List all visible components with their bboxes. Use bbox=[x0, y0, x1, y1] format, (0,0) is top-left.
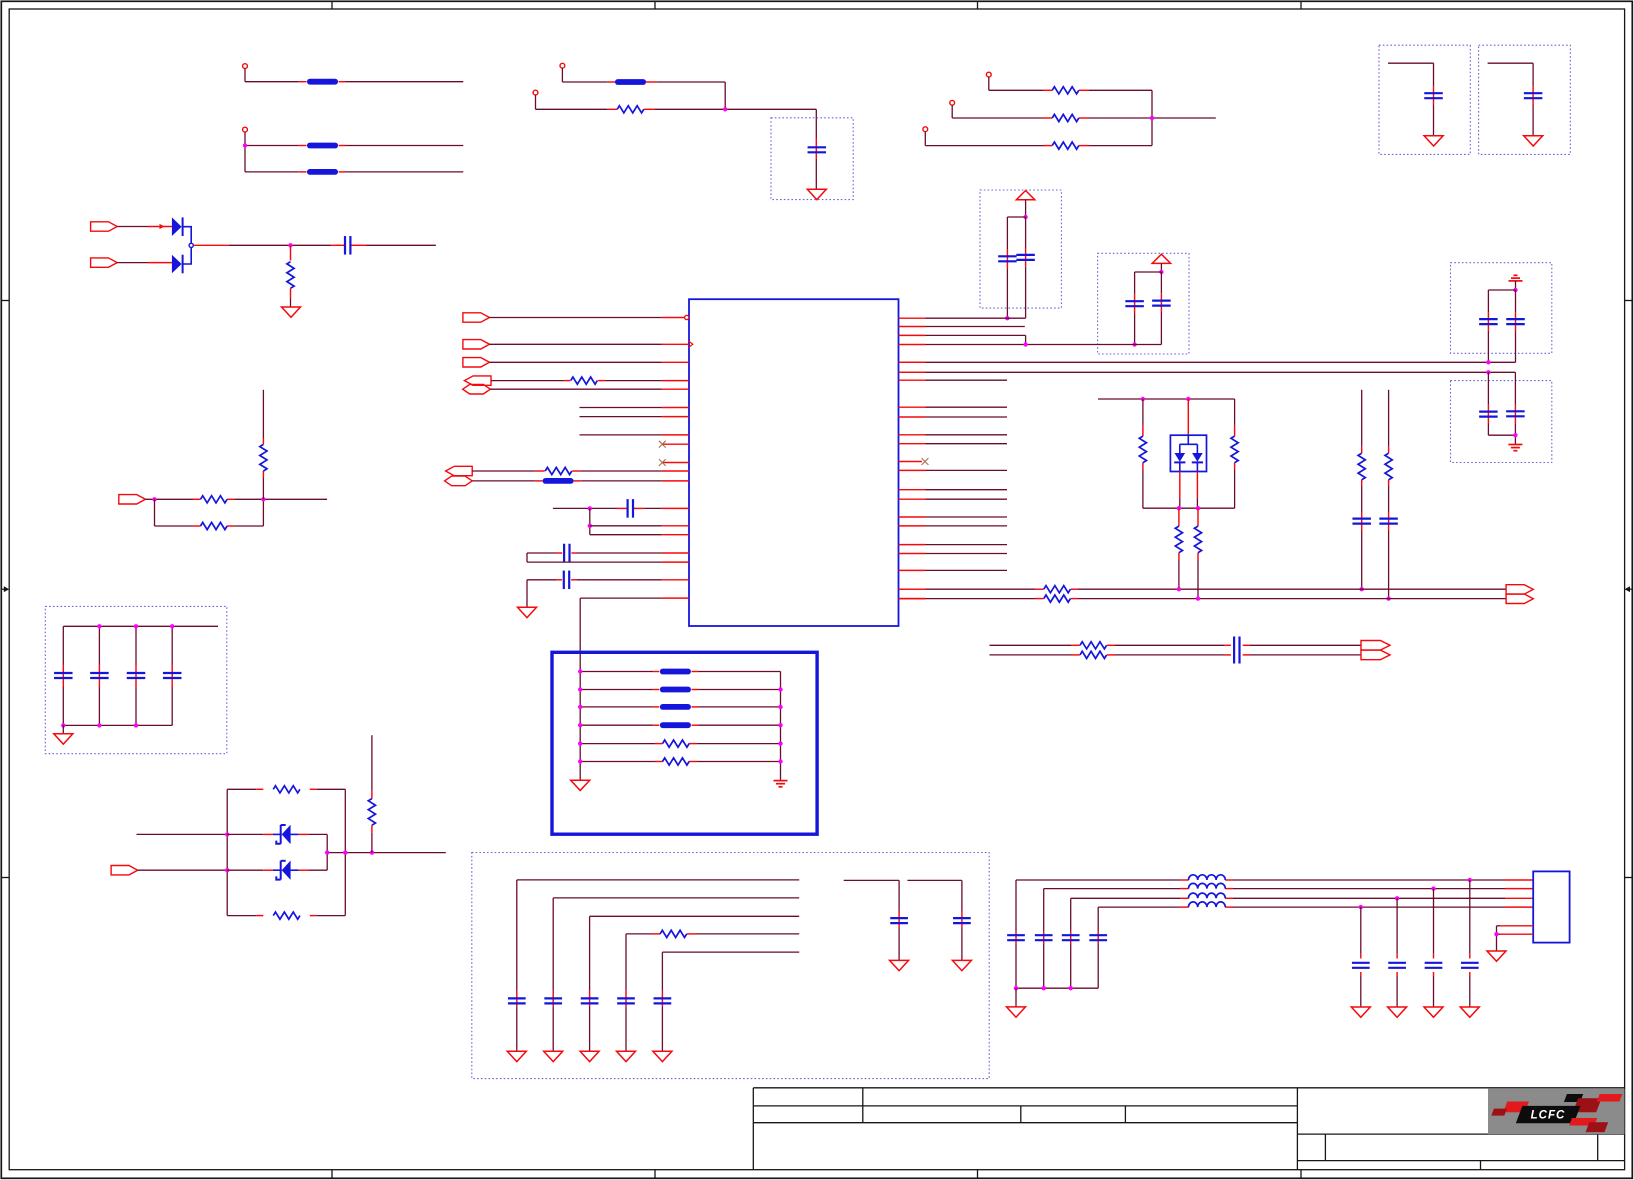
wire bbox=[926, 443, 1008, 445]
wire bbox=[517, 879, 799, 881]
wire bbox=[844, 879, 899, 881]
wire bbox=[245, 81, 299, 83]
wire bbox=[1098, 398, 1235, 400]
wire bbox=[1488, 289, 1515, 291]
wire bbox=[472, 470, 535, 472]
wire bbox=[926, 334, 1026, 336]
wire bbox=[1025, 200, 1027, 217]
zone tick left bbox=[1, 300, 9, 302]
port P2 bbox=[91, 258, 118, 267]
pin bbox=[662, 380, 689, 382]
ferrite bead FB8 bbox=[660, 704, 691, 710]
decoupling group box bbox=[771, 118, 853, 200]
zone tick left bbox=[1, 877, 9, 879]
ground earth bbox=[1508, 444, 1522, 446]
power symbol VCC bbox=[1016, 191, 1034, 200]
wire bbox=[527, 561, 662, 563]
test point TP4 bbox=[533, 90, 538, 95]
junction bbox=[778, 741, 782, 745]
wire bbox=[290, 245, 292, 260]
wire bbox=[262, 390, 264, 438]
port P13 bbox=[445, 476, 473, 486]
inverted pin bubble bbox=[685, 315, 689, 319]
pin bbox=[662, 388, 689, 390]
test point TP7 bbox=[923, 127, 928, 132]
resistor R14 bbox=[1080, 642, 1107, 649]
resistor R19 bbox=[663, 758, 690, 765]
capacitor C35 bbox=[90, 672, 109, 674]
junction bbox=[578, 687, 582, 691]
pin bbox=[662, 579, 689, 581]
junction bbox=[1359, 905, 1363, 909]
wire bbox=[926, 379, 1008, 381]
wire bbox=[926, 434, 1008, 436]
junction bbox=[578, 741, 582, 745]
wire bbox=[1097, 907, 1099, 932]
wire bbox=[1515, 290, 1517, 312]
wire bbox=[899, 371, 926, 373]
pin bbox=[899, 489, 926, 491]
zone tick top bbox=[977, 1, 979, 9]
decoupling group box bbox=[980, 190, 1061, 308]
wire bbox=[580, 706, 653, 708]
test point TP2 bbox=[243, 127, 248, 132]
pin bbox=[1500, 933, 1533, 935]
resistor R3 bbox=[1052, 87, 1079, 94]
wire bbox=[1361, 390, 1363, 447]
diode D2 bbox=[172, 255, 182, 274]
wire bbox=[989, 89, 1043, 91]
junction bbox=[723, 107, 727, 111]
capacitor C8 bbox=[1524, 92, 1543, 94]
wire bbox=[227, 869, 263, 871]
wire bbox=[926, 416, 1008, 418]
capacitor C18 bbox=[563, 571, 565, 590]
pin bbox=[899, 498, 926, 500]
capacitor C10 bbox=[1506, 318, 1525, 320]
wire bbox=[1135, 271, 1162, 273]
ground bbox=[1487, 951, 1506, 961]
resistor R4 bbox=[1052, 114, 1079, 121]
wire bbox=[299, 833, 309, 835]
wire bbox=[1196, 472, 1198, 499]
wire bbox=[579, 672, 581, 781]
wire bbox=[1044, 888, 1180, 890]
wire bbox=[1025, 217, 1027, 248]
port P8 bbox=[463, 340, 490, 349]
capacitor C6 bbox=[1152, 300, 1171, 302]
ground bbox=[282, 307, 301, 317]
wire bbox=[625, 934, 627, 991]
wire bbox=[490, 361, 662, 363]
pin bbox=[662, 434, 689, 436]
test point TP5 bbox=[986, 72, 991, 77]
capacitor C22 bbox=[617, 997, 635, 999]
wire bbox=[1160, 263, 1162, 272]
wire bbox=[1234, 399, 1236, 426]
port P12 bbox=[446, 466, 473, 475]
wire bbox=[1497, 925, 1501, 927]
port P7 bbox=[463, 313, 490, 322]
zone tick bottom bbox=[331, 1170, 333, 1179]
wire bbox=[273, 869, 282, 871]
wire bbox=[899, 361, 926, 363]
wire bbox=[227, 833, 263, 835]
wire bbox=[194, 244, 229, 246]
resistor R23 bbox=[260, 444, 267, 471]
port P6 bbox=[1361, 650, 1390, 660]
junction bbox=[1023, 215, 1027, 219]
wire bbox=[1043, 889, 1045, 932]
diode D1 bbox=[172, 217, 182, 236]
ground bbox=[1424, 136, 1443, 146]
junction bbox=[134, 624, 138, 628]
wire bbox=[1488, 62, 1534, 64]
resistor R5 bbox=[1052, 142, 1079, 149]
port P9 bbox=[463, 358, 490, 367]
wire bbox=[580, 407, 662, 409]
junction bbox=[1042, 986, 1046, 990]
wire bbox=[1469, 880, 1471, 954]
wire bbox=[226, 789, 228, 915]
junction bbox=[1386, 596, 1390, 600]
zone tick right bbox=[1625, 300, 1633, 302]
pin bbox=[662, 343, 689, 345]
pin bbox=[662, 561, 689, 563]
ferrite bead FB5 bbox=[543, 478, 574, 484]
node bubble bbox=[189, 243, 193, 247]
junction bbox=[588, 524, 592, 528]
resistor R15 bbox=[1080, 651, 1107, 658]
title block left table bbox=[753, 1088, 1297, 1170]
wire bbox=[926, 553, 1008, 555]
wire bbox=[1388, 62, 1434, 64]
wire bbox=[926, 544, 1008, 546]
ground bbox=[1388, 1007, 1407, 1017]
wire bbox=[580, 724, 653, 726]
pin (NC) bbox=[662, 462, 689, 464]
wire bbox=[183, 227, 192, 243]
ground bbox=[1351, 1007, 1370, 1017]
capacitor C31 bbox=[1425, 962, 1443, 964]
junction bbox=[152, 497, 156, 501]
port P3 bbox=[1506, 585, 1533, 594]
ground bbox=[653, 1051, 672, 1061]
junction bbox=[1177, 587, 1181, 591]
capacitor C32 bbox=[1388, 962, 1406, 964]
wire bbox=[290, 288, 292, 297]
clock pin mark bbox=[688, 341, 693, 348]
wire bbox=[63, 724, 172, 726]
port P11 bbox=[463, 384, 491, 394]
pin bbox=[899, 334, 926, 336]
wire bbox=[580, 761, 655, 763]
zone tick right bbox=[1625, 877, 1633, 879]
pin bbox=[662, 407, 689, 409]
wire bbox=[926, 525, 1008, 527]
capacitor C2 bbox=[808, 146, 827, 148]
wire bbox=[561, 68, 563, 82]
ground bbox=[507, 1051, 526, 1061]
pin (NC) bbox=[662, 443, 689, 445]
wire bbox=[926, 516, 1008, 518]
wire bbox=[580, 671, 653, 673]
port P10 bbox=[464, 376, 491, 385]
junction bbox=[261, 497, 265, 501]
power symbol VCC bbox=[1152, 254, 1170, 263]
junction bbox=[343, 850, 347, 854]
ground bbox=[518, 607, 537, 617]
junction bbox=[778, 705, 782, 709]
wire bbox=[1514, 372, 1516, 404]
zone tick top bbox=[331, 1, 333, 9]
wire bbox=[580, 434, 662, 436]
wire bbox=[589, 508, 591, 534]
capacitor C9 bbox=[1479, 318, 1498, 320]
wire bbox=[580, 416, 662, 418]
wire bbox=[491, 380, 564, 382]
wire bbox=[62, 626, 64, 664]
wire bbox=[171, 626, 173, 664]
junction bbox=[1023, 342, 1027, 346]
resistor R26 bbox=[368, 799, 375, 826]
junction bbox=[97, 723, 101, 727]
ground bbox=[571, 780, 590, 790]
signal arrow bbox=[160, 224, 165, 229]
wire bbox=[1197, 508, 1199, 526]
wire bbox=[1015, 988, 1017, 1007]
svg-text:LCFC: LCFC bbox=[1531, 1110, 1566, 1122]
wire bbox=[899, 588, 926, 590]
junction bbox=[1159, 270, 1163, 274]
wire bbox=[1016, 987, 1098, 989]
wire bbox=[527, 579, 556, 581]
wire bbox=[553, 897, 799, 899]
junction bbox=[778, 723, 782, 727]
capacitor C30 bbox=[1461, 962, 1479, 964]
wire bbox=[490, 317, 662, 319]
wire bbox=[536, 108, 608, 110]
wire bbox=[590, 534, 662, 536]
inductor L1 bbox=[1189, 875, 1226, 880]
capacitor C28 bbox=[1062, 934, 1080, 936]
junction bbox=[61, 723, 65, 727]
power symbol bbox=[1514, 274, 1518, 276]
resistor R20 bbox=[660, 930, 687, 937]
wire bbox=[63, 625, 218, 627]
ground bbox=[1524, 136, 1543, 146]
wire bbox=[925, 145, 1043, 147]
wire bbox=[245, 171, 299, 173]
decoupling group box bbox=[1451, 381, 1552, 463]
inductor L4 bbox=[1189, 902, 1226, 907]
junction bbox=[1513, 288, 1517, 292]
decoupling group box bbox=[45, 606, 227, 753]
ferrite bead FB4 bbox=[615, 79, 646, 85]
wire bbox=[526, 580, 528, 608]
wire bbox=[371, 735, 373, 791]
ferrite bead FB3 bbox=[307, 169, 338, 175]
junction bbox=[325, 850, 329, 854]
wire bbox=[472, 480, 535, 482]
capacitor C20 bbox=[544, 997, 562, 999]
junction bbox=[225, 832, 229, 836]
junction bbox=[578, 723, 582, 727]
junction bbox=[1494, 932, 1498, 936]
wire bbox=[98, 626, 100, 664]
capacitor C21 bbox=[581, 997, 599, 999]
port P5 bbox=[1361, 641, 1390, 651]
capacitor C29 bbox=[1089, 934, 1107, 936]
ground bbox=[617, 1051, 636, 1061]
pin bbox=[662, 597, 689, 599]
wire bbox=[1160, 272, 1162, 294]
ground bbox=[1007, 1007, 1026, 1017]
wire bbox=[183, 248, 192, 264]
junction bbox=[1141, 397, 1145, 401]
wire bbox=[516, 880, 518, 991]
port P1 bbox=[91, 222, 118, 231]
pin bbox=[899, 443, 926, 445]
resistor R6 bbox=[1139, 436, 1146, 463]
capacitor C12 bbox=[1506, 410, 1525, 412]
inductor L2 bbox=[1189, 883, 1226, 888]
wire bbox=[1179, 472, 1181, 499]
capacitor C1 bbox=[344, 236, 346, 255]
wire bbox=[1515, 281, 1517, 290]
pin bbox=[899, 553, 926, 555]
capacitor C25 bbox=[953, 917, 971, 919]
junction bbox=[778, 687, 782, 691]
junction bbox=[1177, 506, 1181, 510]
junction bbox=[778, 759, 782, 763]
wire bbox=[344, 789, 346, 915]
pin bbox=[899, 371, 926, 373]
resistor R21 bbox=[201, 496, 228, 503]
wire bbox=[626, 933, 652, 935]
no-connect X bbox=[659, 441, 666, 448]
wire bbox=[1396, 898, 1398, 954]
zone tick top bbox=[654, 1, 656, 9]
decoupling group box bbox=[1098, 253, 1189, 354]
wire bbox=[780, 672, 782, 781]
pin bbox=[899, 344, 926, 346]
wire bbox=[273, 833, 282, 835]
wire bbox=[227, 788, 256, 790]
no-connect X bbox=[922, 458, 929, 465]
wire bbox=[926, 326, 1025, 328]
wire bbox=[899, 598, 926, 600]
wire bbox=[1016, 879, 1180, 881]
wire bbox=[1388, 390, 1390, 447]
junction bbox=[1360, 587, 1364, 591]
wire bbox=[1178, 508, 1180, 526]
ferrite bead FB7 bbox=[660, 687, 691, 693]
wire bbox=[1487, 372, 1489, 404]
resistor R22 bbox=[201, 522, 228, 529]
pin bbox=[899, 469, 926, 471]
pin bbox=[662, 416, 689, 418]
wire bbox=[590, 915, 800, 917]
pin bbox=[899, 406, 926, 408]
pin bbox=[899, 525, 926, 527]
pin bbox=[662, 317, 685, 319]
inductor L3 bbox=[1189, 893, 1226, 898]
junction bbox=[1513, 433, 1517, 437]
ground bbox=[890, 960, 909, 970]
pin bbox=[662, 525, 689, 527]
capacitor C11 bbox=[1479, 411, 1498, 413]
decoupling group box bbox=[1479, 45, 1571, 154]
TVS diode pack D3 bbox=[1170, 435, 1206, 471]
wire bbox=[526, 553, 528, 562]
test point TP1 bbox=[243, 64, 248, 69]
junction bbox=[1395, 896, 1399, 900]
wire bbox=[926, 498, 1008, 500]
junction bbox=[1486, 360, 1490, 364]
capacitor C14 bbox=[1379, 517, 1398, 519]
pin bbox=[899, 516, 926, 518]
wire bbox=[815, 138, 817, 159]
resistor R17 bbox=[545, 467, 572, 474]
center arrow left edge bbox=[1, 586, 9, 592]
pin bbox=[662, 552, 689, 554]
pin bbox=[899, 317, 926, 319]
junction bbox=[1005, 316, 1009, 320]
port P15 bbox=[111, 866, 138, 875]
resistor R8 bbox=[1175, 526, 1182, 553]
capacitor C36 bbox=[127, 672, 146, 674]
wire bbox=[662, 951, 799, 953]
wire bbox=[299, 869, 309, 871]
wire bbox=[1015, 880, 1017, 932]
pin bbox=[662, 470, 689, 472]
pin bbox=[899, 588, 926, 590]
wire bbox=[490, 388, 662, 390]
pin bbox=[899, 461, 923, 463]
capacitor C33 bbox=[1352, 962, 1370, 964]
ground bbox=[952, 960, 971, 970]
wire bbox=[589, 916, 591, 990]
pin bbox=[662, 507, 689, 509]
wire bbox=[154, 499, 156, 526]
junction bbox=[1014, 986, 1018, 990]
wire bbox=[553, 507, 617, 509]
junction bbox=[1132, 342, 1136, 346]
junction bbox=[225, 868, 229, 872]
ferrite bead FB9 bbox=[660, 722, 691, 728]
junction bbox=[1468, 878, 1472, 882]
wire bbox=[244, 69, 246, 82]
capacitor C4 bbox=[1016, 254, 1035, 256]
junction bbox=[578, 759, 582, 763]
capacitor C5 bbox=[1125, 300, 1144, 302]
wire bbox=[661, 952, 663, 991]
wire bbox=[135, 626, 137, 664]
wire bbox=[117, 262, 148, 264]
wire bbox=[815, 159, 817, 190]
wire bbox=[562, 81, 607, 83]
wire bbox=[951, 105, 953, 118]
pin bbox=[899, 416, 926, 418]
junction bbox=[1196, 506, 1200, 510]
zener diode D5 bbox=[282, 861, 291, 880]
pin bbox=[899, 544, 926, 546]
capacitor C37 bbox=[163, 672, 182, 674]
wire bbox=[1071, 897, 1180, 899]
wire bbox=[926, 469, 1008, 471]
zone tick bottom bbox=[1300, 1170, 1302, 1179]
